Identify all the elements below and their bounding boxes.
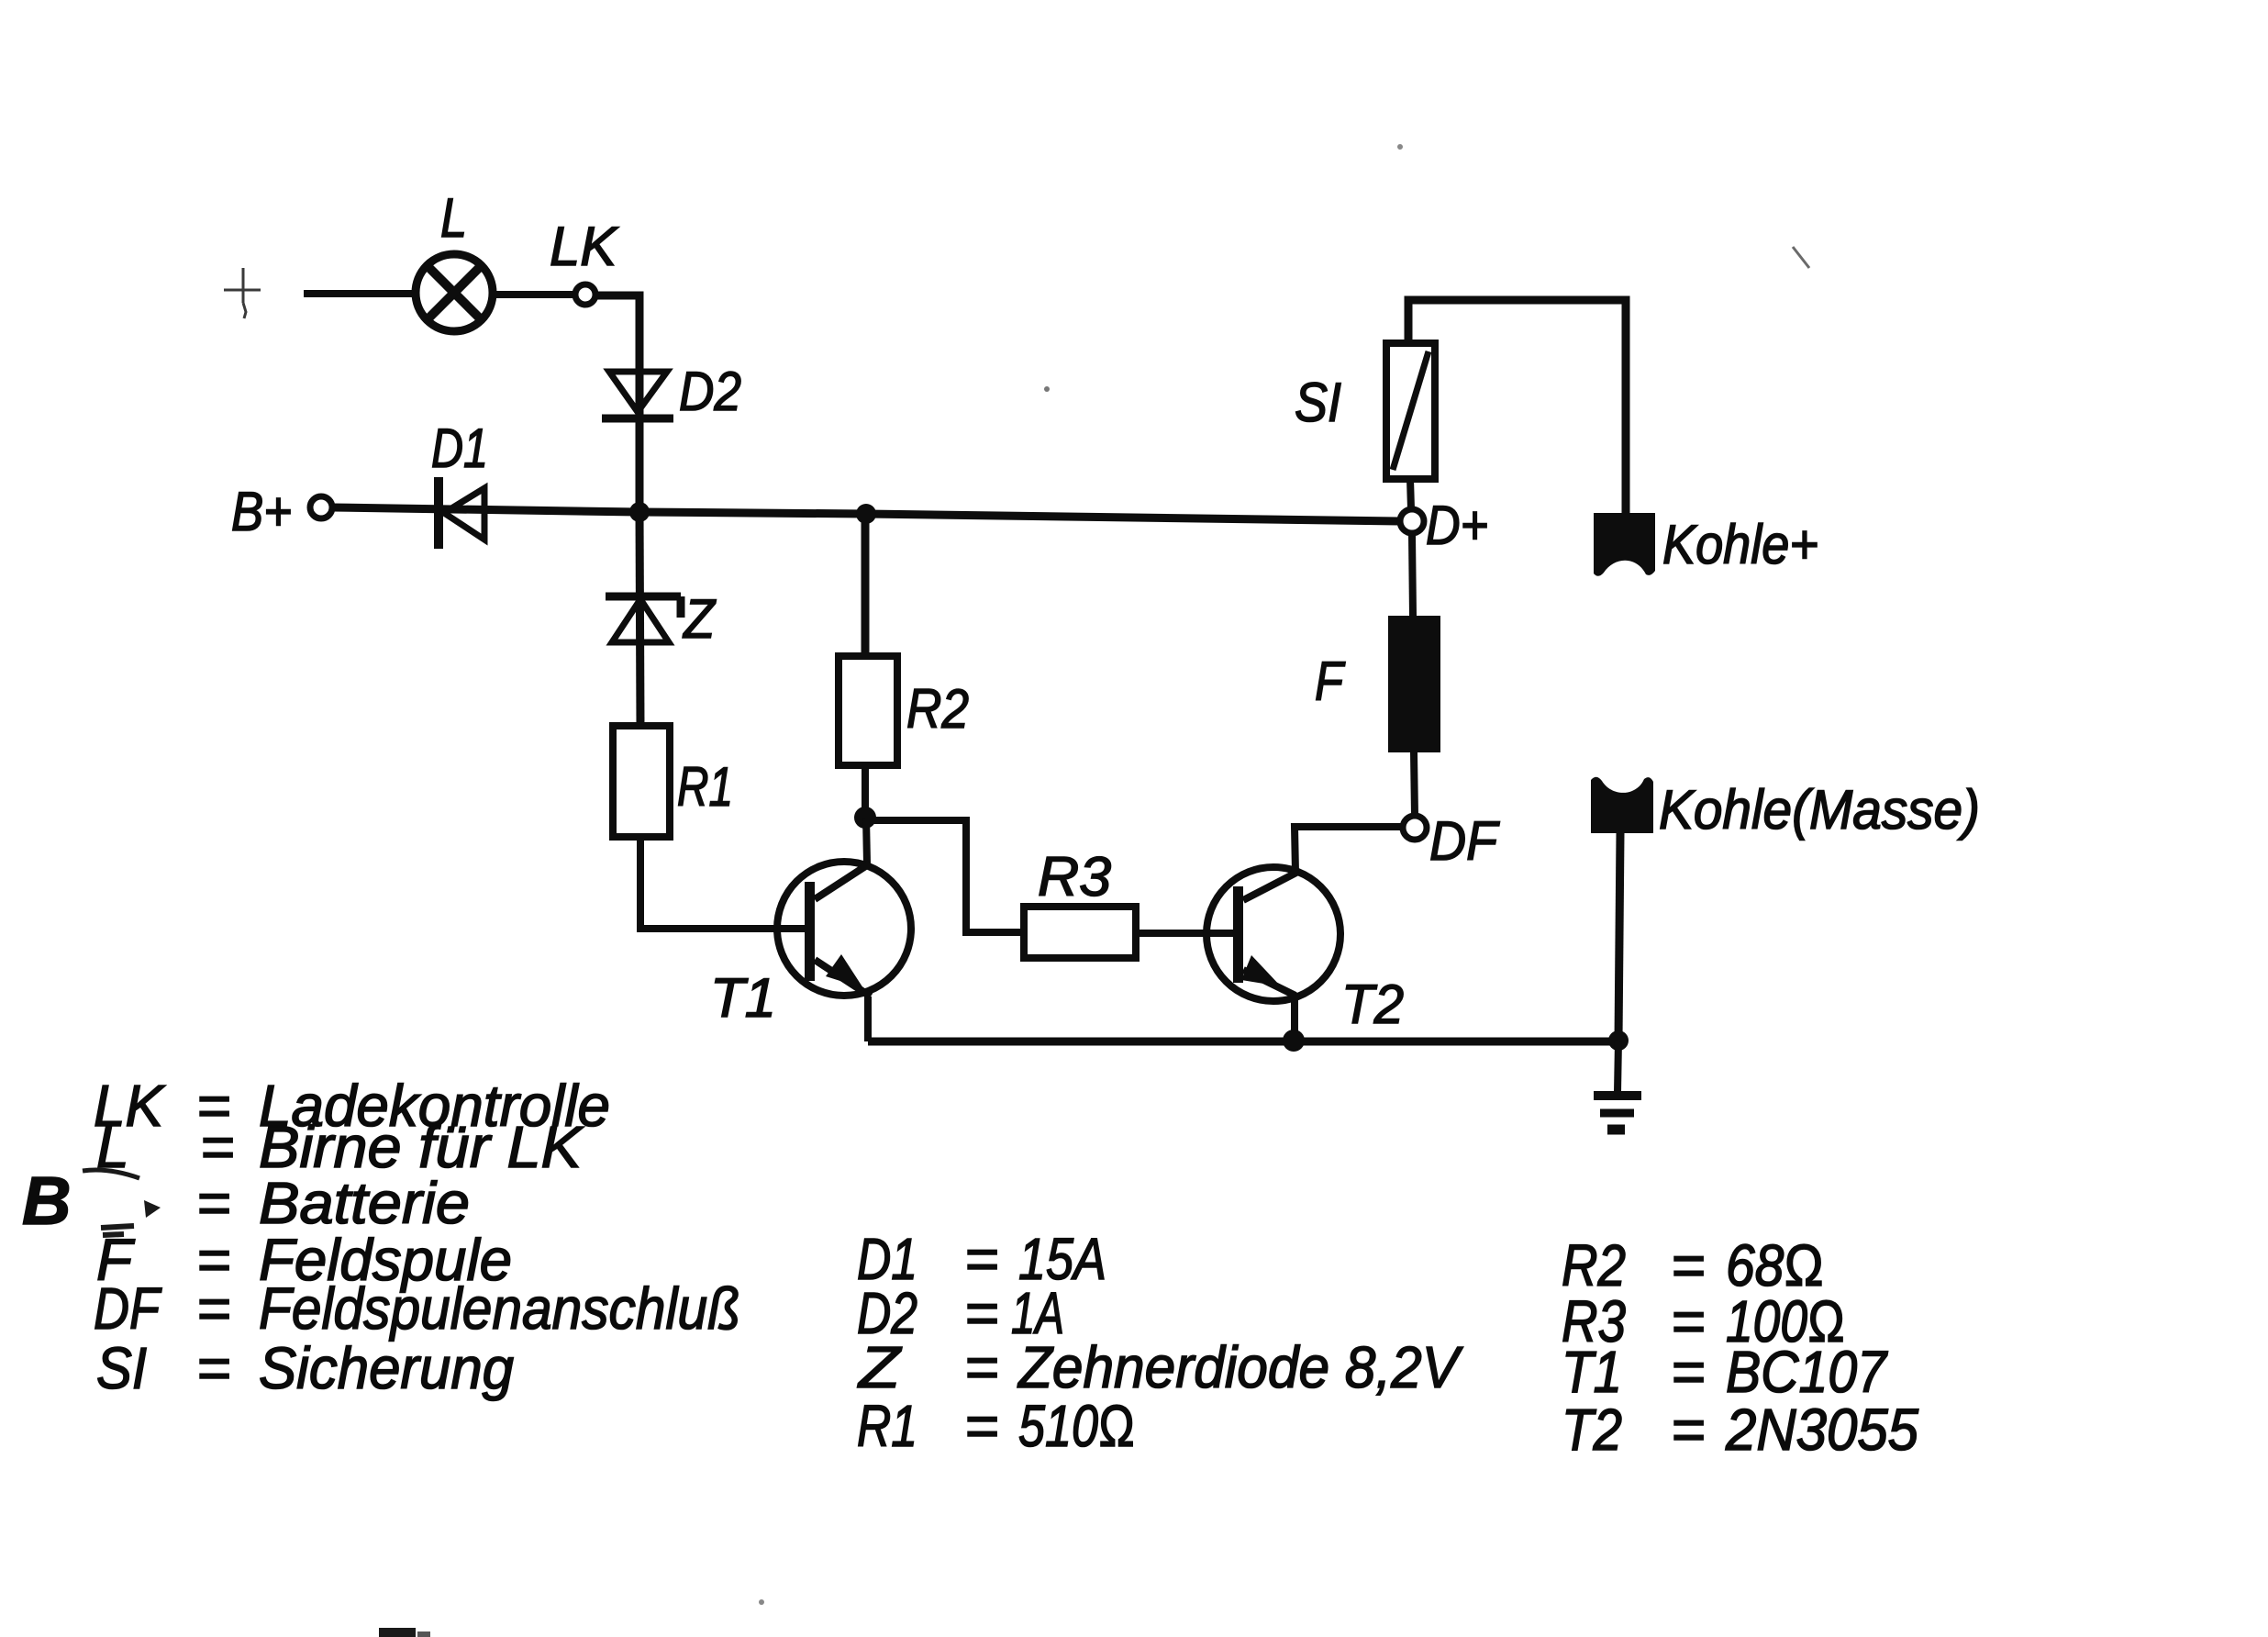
wire R1 to T1 base (640, 837, 805, 929)
scan noise: bottom edge blob (379, 1628, 416, 1637)
wire node C to T1 collector (866, 818, 867, 863)
wire R3 to T2 base (1136, 930, 1234, 937)
wire R2 to node C (862, 765, 869, 818)
svg-text:SI: SI (1295, 372, 1341, 433)
node junction B+/D2 (629, 502, 650, 522)
wire D2 through to node (636, 373, 644, 508)
legend row Z value (857, 1334, 1463, 1400)
svg-text:=: = (196, 1335, 230, 1401)
wire D+ to F (1412, 535, 1413, 616)
wire T2 collector to DF (1295, 827, 1403, 873)
node junction ground (1608, 1030, 1629, 1051)
svg-text:DF: DF (1429, 810, 1500, 872)
terminal DF (1403, 816, 1427, 840)
field coil F (1388, 616, 1440, 752)
terminal LK (575, 284, 595, 305)
node junction T2 emitter/ground bus (1283, 1030, 1305, 1052)
scribble arrow mark (144, 1200, 161, 1218)
legend row R1 value (857, 1393, 1135, 1459)
legend row L (96, 1114, 584, 1180)
svg-text:Feldspulenanschluß: Feldspulenanschluß (259, 1275, 740, 1342)
svg-text:T1: T1 (1562, 1339, 1622, 1405)
svg-text:Kohle+: Kohle+ (1662, 514, 1818, 575)
wire LK corner down to D2 (595, 295, 639, 373)
wire node C to R3 (865, 820, 1024, 932)
zener diode Z (606, 593, 681, 601)
legend row T2 value (1562, 1397, 1918, 1463)
resistor R3 (1024, 907, 1136, 958)
resistor R2 (839, 656, 897, 765)
battery plus terminal mark (224, 268, 261, 318)
svg-text:Z: Z (682, 588, 717, 650)
resistor R1 (613, 726, 670, 837)
legend row F (96, 1227, 512, 1293)
wire SI to D+ (1410, 479, 1411, 509)
svg-text:LK: LK (550, 216, 619, 277)
svg-text:T2: T2 (1341, 974, 1404, 1035)
terminal D+ (1400, 509, 1424, 533)
lamp L (416, 254, 493, 331)
scribble smudge (101, 1226, 134, 1235)
legend row SI (96, 1335, 514, 1401)
svg-text:F: F (1315, 651, 1346, 712)
wire B+ line (332, 507, 1400, 521)
legend row R3 value (1562, 1288, 1845, 1354)
scan noise: top right scratch (1793, 247, 1809, 268)
svg-text:D1: D1 (431, 418, 488, 479)
svg-text:=: = (1671, 1339, 1705, 1405)
legend row R2 value (1562, 1232, 1824, 1298)
brush Kohle+ (1594, 513, 1655, 576)
legend row D2 value (857, 1280, 1064, 1346)
svg-text:2N3055: 2N3055 (1725, 1397, 1918, 1463)
svg-text:R2: R2 (906, 678, 969, 740)
wire node to R2 (862, 514, 870, 656)
svg-text:T2: T2 (1562, 1397, 1622, 1463)
scribble stroke over battery symbol (83, 1170, 139, 1178)
scan noise specks (1044, 386, 1050, 392)
svg-text:Sicherung: Sicherung (259, 1335, 514, 1401)
wire SI top corner (1408, 300, 1626, 513)
legend row D1 value (857, 1226, 1106, 1292)
transistor T2 (1206, 867, 1340, 1001)
wire F to DF (1414, 752, 1415, 816)
ground bus wire (868, 1038, 1618, 1046)
node junction R2/T1/R3 (854, 807, 876, 829)
transistor T1 (777, 862, 911, 996)
brush Kohle(Masse) (1591, 777, 1653, 833)
svg-text:R1: R1 (677, 756, 733, 818)
svg-text:=: = (964, 1334, 998, 1400)
svg-text:Zehnerdiode 8,2V: Zehnerdiode 8,2V (1017, 1334, 1463, 1400)
legend row DF (94, 1275, 740, 1342)
fuse SI (1386, 343, 1435, 479)
wire node to zener Z (639, 512, 640, 726)
svg-text:B: B (22, 1163, 71, 1239)
wire T2 emitter down (1291, 996, 1298, 1041)
wire lamp to LK (493, 291, 574, 298)
wire T1 emitter down (864, 997, 872, 1041)
svg-text:=: = (196, 1275, 230, 1342)
svg-text:=: = (964, 1393, 998, 1459)
svg-text:L: L (440, 187, 467, 249)
svg-text:R3: R3 (1038, 846, 1111, 908)
svg-text:Kohle(Masse): Kohle(Masse) (1659, 779, 1980, 841)
svg-text:510Ω: 510Ω (1018, 1393, 1135, 1459)
terminal B+ (310, 496, 332, 518)
svg-text:D+: D+ (1426, 495, 1488, 556)
svg-text:=: = (1671, 1397, 1705, 1463)
diode D1 (434, 477, 443, 549)
node junction B+/R2 (856, 504, 876, 524)
svg-text:SI: SI (96, 1335, 147, 1401)
svg-text:B+: B+ (231, 481, 292, 542)
legend row Batterie (196, 1170, 470, 1236)
wire battery to lamp (304, 290, 414, 297)
svg-text:D2: D2 (679, 361, 741, 422)
svg-text:Z: Z (857, 1334, 902, 1400)
svg-text:R1: R1 (857, 1393, 917, 1459)
diode D2 (609, 372, 667, 412)
svg-text:DF: DF (94, 1275, 162, 1342)
wire Kohle(Masse) to ground bus (1618, 833, 1620, 1041)
legend row T1 value (1562, 1339, 1888, 1405)
ground symbol (1618, 1041, 1618, 1093)
legend row LK (94, 1073, 610, 1139)
svg-text:BC107: BC107 (1726, 1339, 1888, 1405)
svg-text:T1: T1 (710, 967, 776, 1029)
